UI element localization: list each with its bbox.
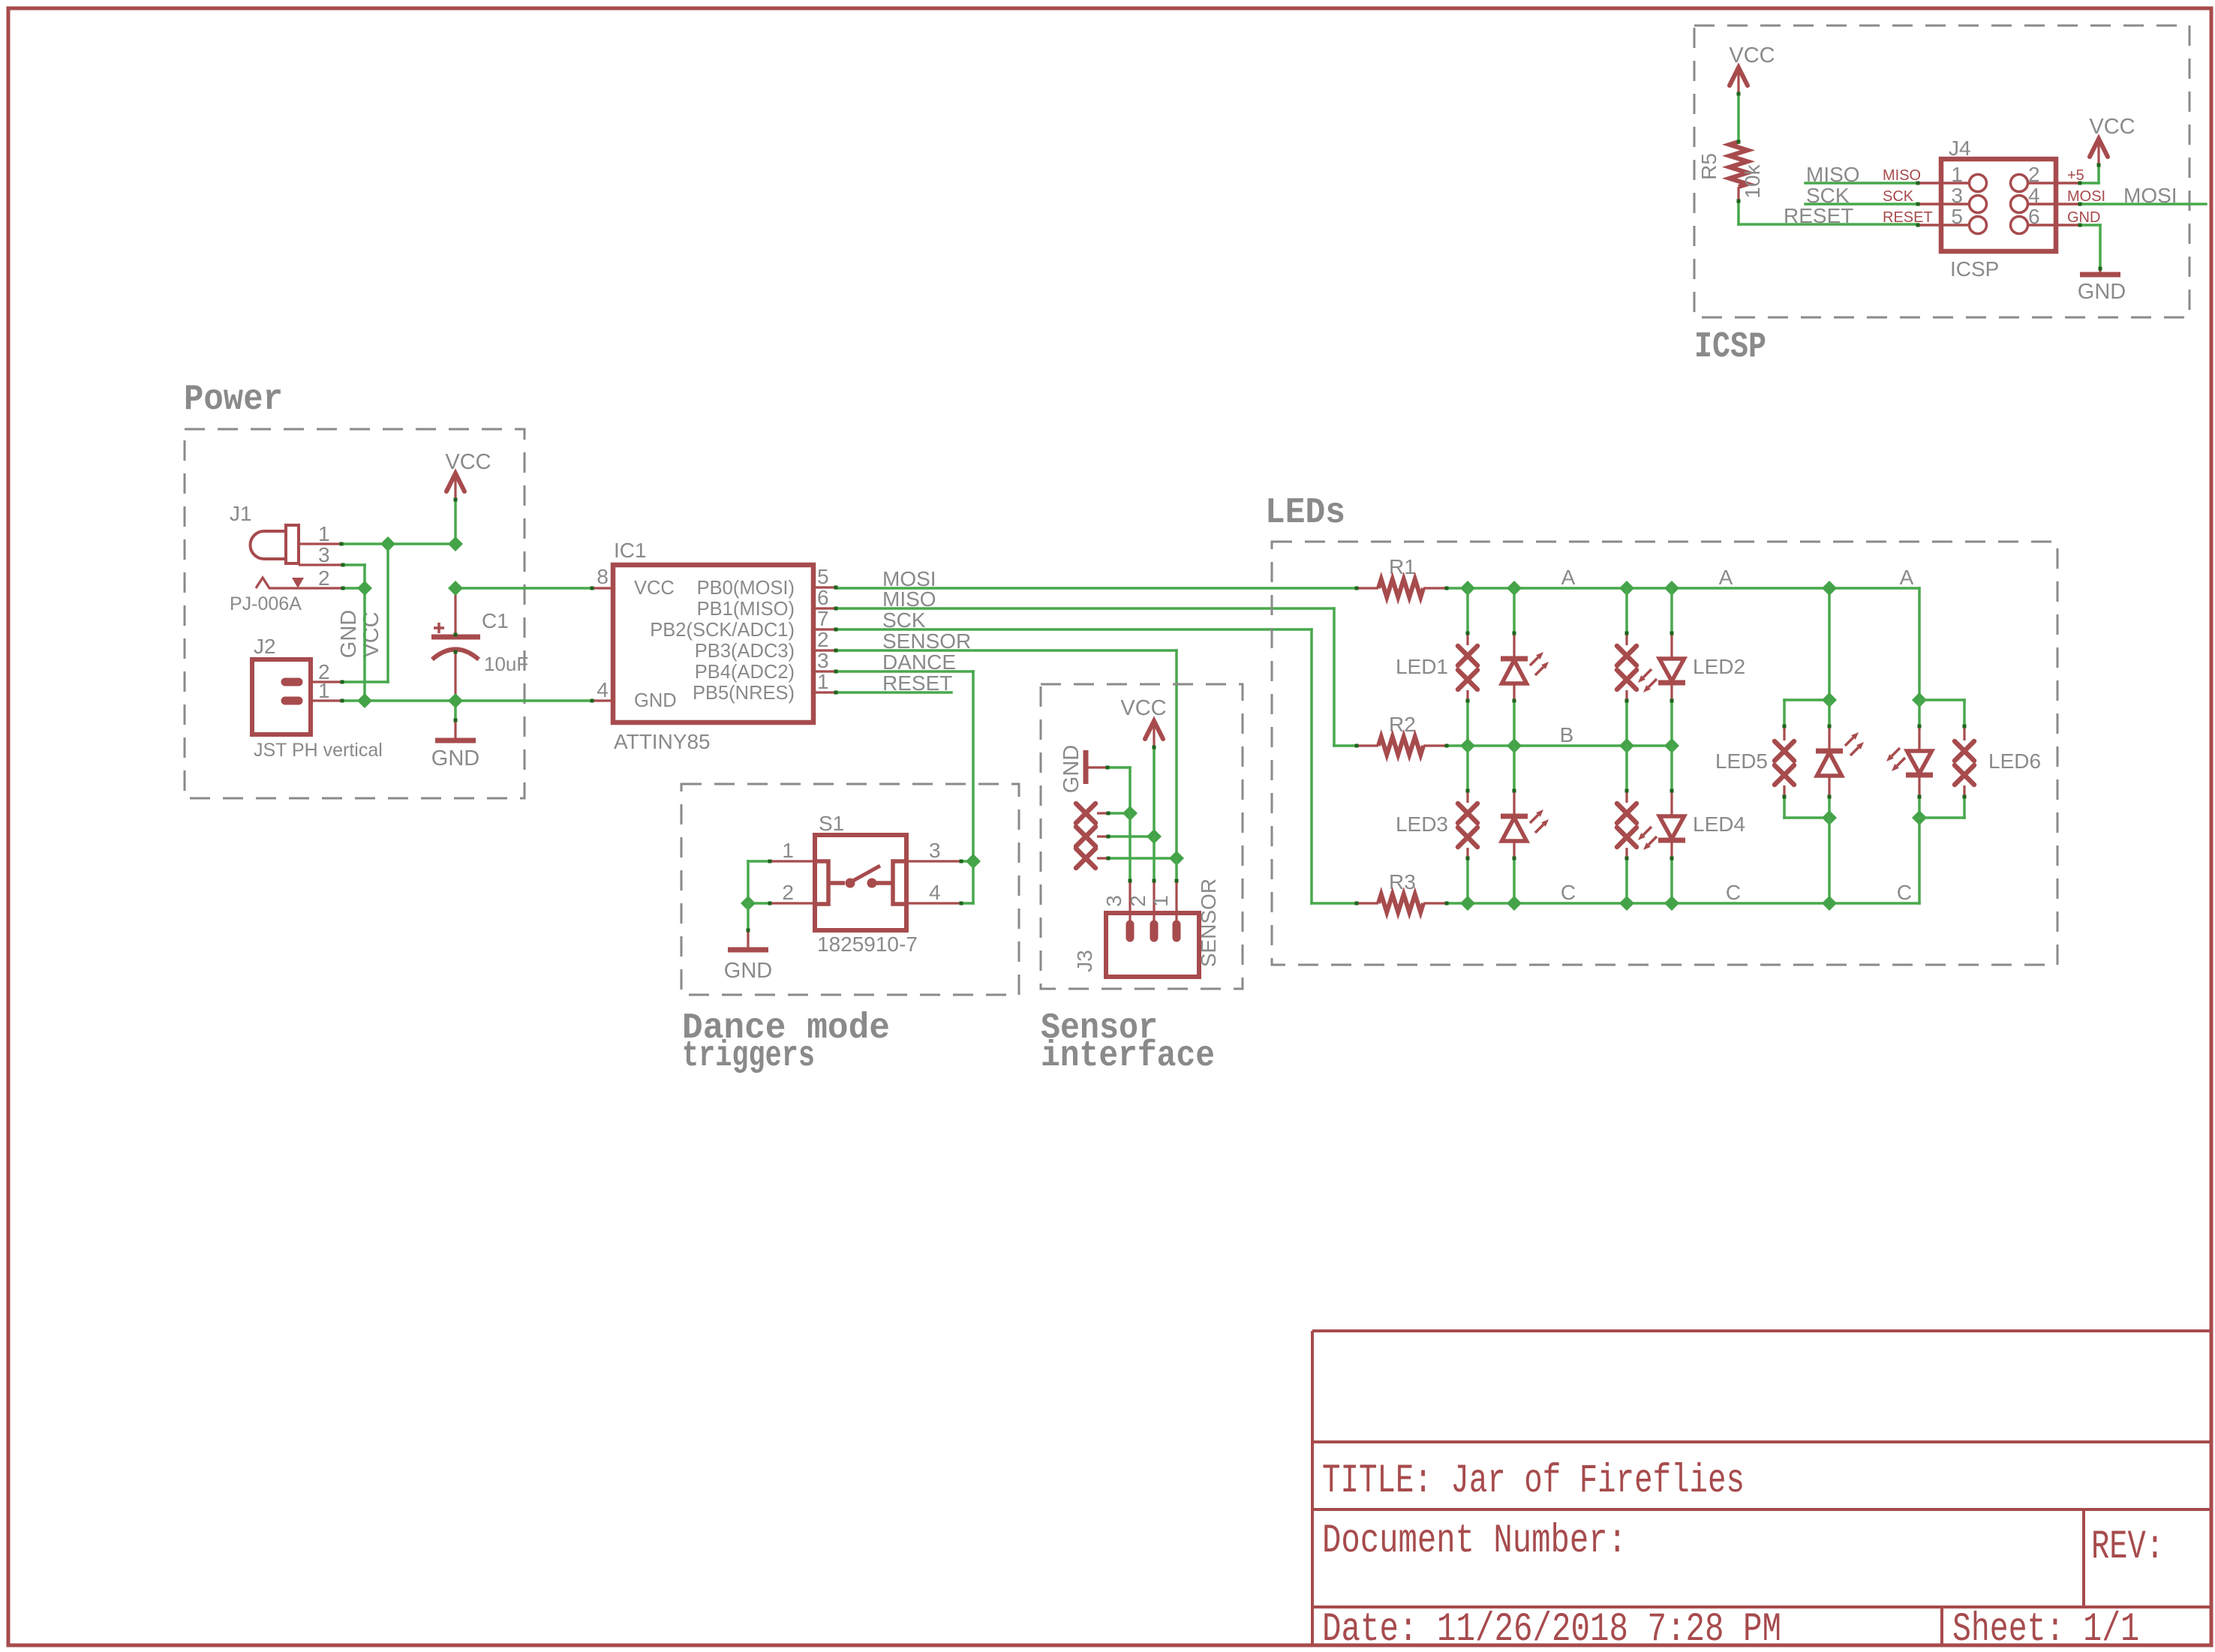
junction SENSOR column [1169, 851, 1184, 866]
svg-text:1: 1 [318, 679, 330, 702]
J4 pin 3 lead [1918, 203, 1968, 206]
document number text [1322, 1518, 1627, 1564]
svg-text:RESET: RESET [1883, 209, 1933, 226]
connector J3 SENSOR symbol [1106, 913, 1199, 977]
IC1 designator [614, 539, 647, 562]
svg-text:10k: 10k [1741, 164, 1764, 198]
connector J4 designator [1949, 137, 1971, 160]
S1 pin 3 number [929, 839, 941, 862]
wire S1 pin3 to DANCE [961, 860, 973, 863]
Dance section dashed box [681, 784, 1019, 995]
J4 pin 3 circle [1970, 196, 1987, 213]
connector J4 ICSP header body [1941, 159, 2056, 251]
S1 pin 1 number [782, 839, 794, 862]
sheet text [1952, 1607, 2139, 1652]
wire net SCK to R3 [836, 629, 1357, 903]
J4 pin 4 lead [2029, 203, 2080, 206]
LED6 diode [1906, 700, 1933, 818]
S1 pin 4 number [929, 881, 941, 904]
LED2 receive arrows [1638, 669, 1657, 692]
S1 pin 3 lead [906, 860, 961, 862]
junction row B col 1 [1460, 738, 1475, 753]
IC1 pin 5 number [817, 565, 829, 588]
svg-text:6: 6 [817, 586, 829, 609]
J4 pin 5 circle [1970, 217, 1987, 234]
J1 pin 2 lead with switch contact [256, 578, 343, 588]
svg-text:GND: GND [2078, 280, 2126, 304]
J1 pin 3 lead [299, 563, 343, 566]
wire VCC rail C1 top to IC1 [455, 587, 592, 590]
J2 value JST PH vertical [254, 740, 383, 761]
no-connect X mark row 3 [1076, 849, 1108, 868]
junction LED6 top [1912, 692, 1927, 707]
svg-text:GND: GND [724, 959, 772, 983]
IC1 pin 2 number [817, 628, 829, 651]
wire J4 pin2 to VCC [2080, 165, 2099, 183]
ICSP section title [1694, 327, 1766, 368]
LEDs section title [1265, 493, 1345, 533]
net label SCK [882, 608, 926, 632]
LED3 diode [1501, 746, 1528, 903]
wire LED5 top bar [1784, 698, 1829, 701]
LED6 receive arrows [1886, 748, 1905, 771]
LEDs section dashed box [1272, 542, 2057, 965]
svg-text:C: C [1726, 881, 1741, 904]
J1 pin 1 lead [299, 542, 341, 545]
power VCC net label (rotated) [359, 611, 383, 657]
S1 value 1825910-7 [817, 933, 918, 956]
LED4 anti-parallel X pair [1617, 746, 1636, 903]
LED5 emission arrows [1845, 732, 1864, 755]
IC1 pin 3 number [817, 649, 829, 672]
J4 pin 4 circle [2011, 196, 2028, 213]
node C label 1 [1561, 881, 1576, 904]
wire LED6 bottom bar [1919, 816, 1964, 819]
pin label GND (red) [2067, 209, 2100, 226]
junction VCC arrow / C1 top [448, 536, 463, 551]
Dance section title line 1 [682, 1008, 890, 1049]
LED1 label [1396, 655, 1448, 678]
connector J1 PJ-006A barrel jack symbol [251, 525, 299, 563]
svg-text:Document Number:: Document Number: [1322, 1518, 1627, 1564]
svg-text:1: 1 [1149, 895, 1172, 907]
IC1 pin 3 lead [813, 670, 836, 672]
svg-text:10uF: 10uF [484, 653, 528, 675]
junction S1 pin2 / GND [741, 896, 756, 911]
LED4 label [1693, 812, 1745, 836]
svg-text:C: C [1897, 881, 1912, 904]
junction LED6 bottom [1912, 810, 1927, 825]
J4 pin 6 number [2028, 205, 2040, 228]
resistor R5 [1730, 142, 1748, 201]
wire J3 pin1 column [1175, 858, 1178, 923]
power GND label [431, 746, 479, 770]
wire X3 to SENSOR column [1108, 857, 1177, 860]
net label MISO [882, 587, 936, 611]
svg-text:J1: J1 [230, 502, 252, 525]
junction row C col 4 [1664, 896, 1679, 911]
connector J2 JST PH symbol [252, 659, 311, 734]
wire sensor VCC stem [1153, 747, 1156, 836]
dance ground symbol [728, 948, 768, 953]
net label MOSI [882, 567, 936, 590]
svg-text:MOSI: MOSI [2067, 188, 2105, 205]
J4 pin 6 circle [2011, 217, 2028, 234]
LED5 label [1715, 749, 1768, 773]
svg-text:LED6: LED6 [1988, 749, 2041, 773]
IC1 pin 4 lead (GND) [592, 699, 613, 701]
IC1 pin 8 lead (VCC) [592, 587, 613, 589]
sensor VCC supply arrow [1145, 721, 1163, 748]
op-amp IC1 ATTINY85 body [613, 565, 813, 722]
svg-text:LED3: LED3 [1396, 812, 1448, 836]
resistor R5 designator (rotated) [1697, 153, 1721, 180]
svg-text:R5: R5 [1697, 153, 1721, 180]
Sensor section dashed box [1041, 684, 1243, 989]
wire LED6 top bar [1919, 698, 1964, 701]
Sensor section title line 2 [1041, 1036, 1215, 1077]
IC1 pin 7 lead [813, 628, 836, 630]
wire net SCK stub [1805, 203, 1918, 206]
J4 pin 6 lead [2029, 224, 2080, 227]
J4 pin 1 circle [1970, 175, 1987, 192]
net label SENSOR [882, 629, 971, 653]
wire X1 to GND column [1108, 812, 1130, 815]
node A label 1 [1561, 566, 1576, 589]
S1 pin 2 lead [770, 902, 815, 904]
J4 pin 5 number [1951, 205, 1963, 228]
LED3 emission arrows [1530, 809, 1549, 833]
J2 pin 2 number [318, 660, 330, 683]
IC1 pin name VCC [634, 578, 675, 599]
svg-text:Power: Power [184, 380, 283, 420]
ICSP VCC supply arrow (right) [2090, 139, 2108, 166]
LED2 anti-parallel X pair [1617, 588, 1636, 746]
Power section dashed box [185, 429, 524, 798]
no-connect X mark row 1 [1076, 803, 1108, 823]
J1 pin 3 number [318, 543, 330, 566]
IC1 pin 8 number [597, 565, 609, 588]
node C label 3 [1897, 881, 1912, 904]
svg-text:PJ-006A: PJ-006A [230, 593, 302, 614]
svg-text:7: 7 [817, 607, 829, 630]
LED4 receive arrows [1638, 827, 1657, 850]
svg-text:MOSI: MOSI [2123, 184, 2177, 207]
wire row C [1447, 818, 1919, 903]
svg-text:PB1(MISO): PB1(MISO) [697, 599, 795, 620]
svg-text:MISO: MISO [1883, 167, 1921, 184]
power VCC label [445, 450, 491, 474]
junction GND column [1123, 806, 1138, 821]
J4 pin 1 number [1951, 163, 1963, 186]
svg-text:C: C [1561, 881, 1576, 904]
svg-text:PB3(ADC3): PB3(ADC3) [695, 641, 795, 662]
svg-text:J2: J2 [254, 635, 276, 658]
svg-text:LED1: LED1 [1396, 655, 1448, 678]
J3 pin 3 number (rotated) [1102, 895, 1126, 907]
capacitor C1 (polarized) [431, 588, 480, 701]
svg-text:LEDs: LEDs [1265, 493, 1345, 533]
ICSP VCC supply arrow (left) [1730, 68, 1748, 95]
J4 pin 2 circle [2011, 175, 2028, 192]
junction LED5 bottom [1822, 810, 1837, 825]
svg-text:LED5: LED5 [1715, 749, 1768, 773]
IC1 pin 1 lead [813, 691, 836, 693]
wire J1 pin2 to GND column [343, 587, 365, 590]
IC1 pin name PB5(NRES) [693, 683, 795, 704]
IC1 pin name PB1(MISO) [697, 599, 795, 620]
LED6 label [1988, 749, 2041, 773]
svg-text:A: A [1719, 566, 1733, 589]
svg-text:GND: GND [634, 690, 677, 711]
IC1 pin name PB3(ADC3) [695, 641, 795, 662]
svg-text:ICSP: ICSP [1694, 327, 1766, 368]
connector J1 label [230, 502, 252, 525]
svg-text:PB5(NRES): PB5(NRES) [693, 683, 795, 704]
svg-text:3: 3 [318, 543, 330, 566]
wire net DANCE to S1 [836, 671, 973, 861]
svg-text:A: A [1900, 566, 1914, 589]
junction row C col 5 [1822, 896, 1837, 911]
power VCC supply arrow [446, 473, 464, 500]
resistor R1 [1357, 579, 1447, 597]
svg-text:3: 3 [929, 839, 941, 862]
title text [1322, 1458, 1745, 1504]
node B label [1560, 723, 1574, 746]
LED2 diode [1658, 588, 1685, 746]
svg-text:PB4(ADC2): PB4(ADC2) [695, 662, 795, 683]
resistor R3 designator [1389, 870, 1416, 894]
LED4 diode [1658, 746, 1685, 903]
J4 pin 1 lead [1918, 182, 1968, 185]
svg-text:VCC: VCC [1729, 44, 1775, 68]
svg-text:Date: 11/26/2018 7:28 PM: Date: 11/26/2018 7:28 PM [1322, 1607, 1781, 1652]
LED2 label [1693, 655, 1745, 678]
wire X2 to VCC column [1108, 835, 1154, 838]
ICSP VCC label (left) [1729, 44, 1775, 68]
svg-text:RESET: RESET [1784, 204, 1853, 227]
IC1 pin 6 lead [813, 607, 836, 609]
LED5 anti-parallel X pair [1775, 700, 1794, 818]
LED3 anti-parallel X pair [1458, 746, 1477, 903]
svg-text:GND: GND [2067, 209, 2100, 226]
junction VCC column [1147, 829, 1162, 844]
svg-text:3: 3 [817, 649, 829, 672]
net label RESET [882, 671, 952, 695]
Dance section title line 2 [682, 1036, 815, 1077]
J1 value PJ-006A [230, 593, 302, 614]
ICSP ground symbol [2080, 272, 2120, 278]
svg-text:2: 2 [318, 566, 330, 590]
J4 pin 2 lead [2029, 182, 2080, 185]
svg-text:PB2(SCK/ADC1): PB2(SCK/ADC1) [650, 620, 795, 641]
S1 pin 4 lead [906, 902, 961, 904]
connector J2 label [254, 635, 276, 658]
junction GND column / GND rail [357, 693, 372, 708]
IC1 pin name PB0(MOSI) [697, 578, 795, 599]
pin label MOSI (red) [2067, 188, 2105, 205]
svg-text:4: 4 [929, 881, 941, 904]
Power section title [184, 380, 283, 420]
J4 pin 4 number [2028, 184, 2040, 207]
svg-text:SCK: SCK [1883, 188, 1914, 205]
svg-text:PB0(MOSI): PB0(MOSI) [697, 578, 795, 599]
wire net MOSI to R1 [836, 587, 1357, 590]
junction row B col 4 [1664, 738, 1679, 753]
net label MISO (gray) [1806, 163, 1860, 186]
wire J3 pin3 column [1129, 813, 1132, 923]
svg-text:TITLE: Jar of Fireflies: TITLE: Jar of Fireflies [1322, 1458, 1745, 1504]
junction J1 pin1 / VCC column [380, 536, 395, 551]
wire S1 GND stem [747, 903, 750, 948]
svg-text:C1: C1 [482, 609, 509, 632]
svg-text:GND: GND [431, 746, 479, 770]
J2 pin 1 lead [311, 699, 342, 701]
power GND stem [454, 701, 457, 739]
C1 designator [482, 609, 509, 632]
svg-text:SENSOR: SENSOR [1197, 879, 1220, 967]
IC1 pin 1 number [817, 670, 829, 693]
svg-text:VCC: VCC [445, 450, 491, 474]
resistor R1 designator [1389, 555, 1416, 578]
wire row B [1447, 744, 1672, 747]
junction C1 top / VCC rail [448, 581, 463, 596]
svg-text:2: 2 [1126, 895, 1150, 907]
IC1 pin name PB4(ADC2) [695, 662, 795, 683]
title block frame [1312, 1331, 2210, 1644]
svg-text:5: 5 [817, 565, 829, 588]
J4 pin 2 number [2028, 163, 2040, 186]
LED3 label [1396, 812, 1448, 836]
net label MOSI (gray right) [2123, 184, 2177, 207]
junction row A col 1 [1460, 581, 1475, 596]
svg-text:4: 4 [597, 678, 609, 701]
J3 pin 2 number (rotated) [1126, 895, 1150, 907]
wire LED5 bottom bar [1784, 816, 1829, 819]
resistor R2 designator [1389, 713, 1416, 736]
svg-text:GND: GND [1059, 745, 1083, 793]
svg-text:2: 2 [782, 881, 794, 904]
wire net MISO stub [1805, 182, 1918, 185]
wire VCC to R5 [1737, 94, 1740, 142]
J1 pin 1 number [318, 522, 330, 545]
IC1 pin 4 number [597, 678, 609, 701]
junction row A col 4 [1664, 581, 1679, 596]
svg-text:ATTINY85: ATTINY85 [614, 730, 711, 753]
power GND net label (rotated) [337, 610, 361, 658]
sensor ground symbol (rotated) [1086, 750, 1107, 784]
J4 pin 5 lead [1918, 224, 1968, 227]
wire R5 to RESET [1739, 201, 1918, 224]
net label SCK (gray) [1806, 184, 1850, 207]
IC1 pin 5 lead [813, 586, 836, 588]
junction DANCE / S1 pin3 [966, 854, 981, 869]
Sensor section title line 1 [1041, 1008, 1158, 1049]
wire VCC arrow to node [454, 500, 457, 544]
wire J1 pin1 to VCC node [341, 542, 455, 545]
svg-text:1: 1 [782, 839, 794, 862]
svg-text:REV:: REV: [2091, 1524, 2164, 1570]
wire J3 pin2 column [1153, 837, 1156, 923]
svg-text:1: 1 [318, 522, 330, 545]
node A label 3 [1900, 566, 1914, 589]
junction J1 pin2 on GND column [357, 581, 372, 596]
svg-text:8: 8 [597, 565, 609, 588]
junction row A col 3 [1619, 581, 1634, 596]
LED1 emission arrows [1530, 652, 1549, 675]
svg-text:2: 2 [817, 628, 829, 651]
junction row B col 2 [1507, 738, 1522, 753]
wire VCC column J2 pin2 up [342, 544, 388, 682]
R5 value 10k (rotated) [1741, 164, 1764, 198]
svg-text:1: 1 [817, 670, 829, 693]
power ground symbol [435, 738, 476, 743]
LED1 diode [1501, 588, 1528, 746]
wire sensor GND to J3 pin3 column [1107, 767, 1130, 813]
net label RESET (gray) [1784, 204, 1853, 227]
LED6 anti-parallel X pair [1955, 700, 1974, 818]
IC1 pin 7 number [817, 607, 829, 630]
wire net MISO to R2 [836, 608, 1357, 746]
svg-text:triggers: triggers [682, 1036, 815, 1077]
junction LED5 top [1822, 692, 1837, 707]
svg-text:LED4: LED4 [1693, 812, 1745, 836]
pin label SCK (red) [1883, 188, 1914, 205]
net label DANCE [882, 650, 956, 674]
resistor R3 [1357, 894, 1447, 912]
J3 value SENSOR (rotated) [1197, 879, 1220, 967]
LED1 anti-parallel X pair [1458, 588, 1477, 746]
IC1 pin name PB2(SCK/ADC1) [650, 620, 795, 641]
sensor GND label (rotated) [1059, 745, 1083, 793]
wire S1 pin1 to pin2 loop [748, 861, 770, 903]
ICSP GND label [2078, 280, 2126, 304]
svg-text:S1: S1 [819, 812, 844, 835]
J3 pin 1 number (rotated) [1149, 895, 1172, 907]
svg-text:VCC: VCC [2089, 115, 2135, 139]
svg-text:1825910-7: 1825910-7 [817, 933, 918, 956]
J4 pin 3 number [1951, 184, 1963, 207]
svg-text:VCC: VCC [359, 611, 383, 657]
LED5 diode [1816, 700, 1843, 818]
J4 value ICSP [1950, 257, 1999, 281]
IC1 value ATTINY85 [614, 730, 711, 753]
J2 pin 2 lead [311, 680, 342, 683]
J1 pin 2 number [318, 566, 330, 590]
junction row C col 2 [1507, 896, 1522, 911]
rev text [2091, 1524, 2164, 1570]
wire LED5 to row C [1828, 818, 1831, 903]
node C label 2 [1726, 881, 1741, 904]
ICSP section dashed box [1694, 26, 2189, 317]
IC1 pin 2 lead [813, 649, 836, 651]
switch S1 1825910-7 symbol [815, 835, 906, 930]
svg-text:VCC: VCC [634, 578, 675, 599]
pin label MISO (red) [1883, 167, 1921, 184]
IC1 pin name GND [634, 690, 677, 711]
svg-text:J4: J4 [1949, 137, 1971, 160]
node A label 2 [1719, 566, 1733, 589]
svg-text:interface: interface [1041, 1036, 1215, 1077]
svg-text:Sheet: 1/1: Sheet: 1/1 [1952, 1607, 2139, 1652]
wire row A [1447, 588, 1919, 700]
wire J4 pin4 MOSI [2080, 203, 2206, 206]
wire net RESET stub [836, 691, 951, 694]
svg-text:A: A [1561, 566, 1576, 589]
IC1 pin 6 number [817, 586, 829, 609]
wire net SENSOR to J3 [836, 650, 1177, 858]
S1 pin 2 number [782, 881, 794, 904]
